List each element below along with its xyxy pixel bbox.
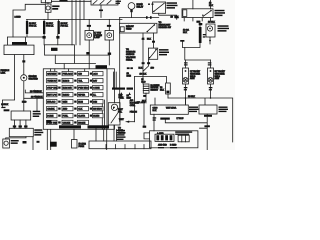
blower resistor striped	[143, 84, 149, 93]
svg-text:HEADLIGHT: HEADLIGHT	[159, 24, 172, 27]
svg-text:FUSE: FUSE	[79, 146, 85, 148]
fusible link 2	[43, 20, 46, 45]
svg-text:PPL 65: PPL 65	[137, 102, 145, 104]
wire	[13, 1, 91, 37]
label	[34, 129, 43, 135]
fuse grid	[47, 72, 110, 129]
ignition coil component	[45, 4, 51, 20]
grommet labels	[160, 118, 170, 120]
svg-text:BLK: BLK	[147, 39, 152, 41]
instrument panel wires	[114, 72, 117, 88]
label1	[189, 107, 199, 113]
wire y98	[168, 98, 233, 142]
svg-text:BLK: BLK	[209, 5, 214, 7]
wire with connector	[120, 17, 159, 19]
svg-text:CLSTR: CLSTR	[118, 133, 125, 135]
svg-text:4WD: 4WD	[63, 109, 68, 111]
svg-text:GAUGES: GAUGES	[47, 73, 57, 76]
wires to lower area	[72, 0, 84, 45]
label	[116, 1, 122, 4]
fuse block label	[96, 65, 108, 68]
wire	[6, 137, 33, 150]
svg-text:PANEL: PANEL	[126, 58, 134, 61]
label	[159, 49, 169, 55]
wire	[100, 5, 102, 18]
label2	[219, 107, 229, 113]
svg-text:CRANK: CRANK	[47, 108, 55, 111]
left wire down	[1, 107, 9, 112]
generator box	[4, 45, 34, 55]
wires into long box	[96, 129, 107, 151]
svg-text:ECM IGN: ECM IGN	[63, 88, 72, 90]
instrument text label	[117, 130, 126, 140]
svg-text:WHT: WHT	[119, 119, 124, 121]
park brake switch P	[108, 103, 120, 125]
bottom long connector box	[89, 141, 151, 149]
svg-text:DIM: DIM	[93, 102, 97, 104]
wire	[159, 13, 177, 19]
svg-text:HTR A/C: HTR A/C	[47, 101, 56, 104]
arrow line A	[126, 121, 135, 123]
inline fuse small comp	[72, 140, 78, 149]
label	[215, 10, 226, 16]
cell group 1	[155, 134, 174, 141]
svg-text:BLO: BLO	[141, 81, 146, 83]
connector marks	[148, 4, 154, 5]
svg-text:RELAY: RELAY	[137, 6, 144, 9]
wires into bus boxes	[154, 98, 186, 131]
svg-text:2 RED: 2 RED	[15, 17, 22, 19]
svg-text:18 BLK: 18 BLK	[140, 74, 147, 76]
wires above	[193, 0, 211, 9]
svg-text:FUS LK: FUS LK	[29, 26, 37, 28]
svg-text:INST LPS: INST LPS	[47, 95, 57, 97]
bus box 1	[150, 105, 188, 114]
svg-text:STOP HAZ: STOP HAZ	[47, 87, 58, 90]
svg-text:BRN: BRN	[127, 76, 132, 78]
wire	[74, 54, 109, 56]
horn LT park/turn lamp	[85, 20, 94, 69]
junction below relay	[143, 59, 148, 71]
fuse block box	[43, 69, 114, 130]
svg-text:B RED: B RED	[170, 144, 177, 146]
svg-text:FUS LK: FUS LK	[61, 26, 69, 28]
LT side marker bulb	[183, 68, 189, 84]
svg-text:ACC: ACC	[93, 73, 98, 76]
svg-text:WIPER: WIPER	[78, 95, 85, 97]
ignition switch feed box	[120, 23, 158, 33]
ground circle	[21, 55, 27, 111]
svg-text:FUEL: FUEL	[63, 116, 69, 118]
svg-text:14 BLK: 14 BLK	[1, 104, 8, 106]
blower motor	[206, 24, 215, 44]
wire	[73, 130, 75, 140]
thick wire bar	[180, 21, 206, 48]
svg-text:BLK: BLK	[183, 32, 188, 34]
svg-text:C HSE: C HSE	[93, 88, 100, 90]
svg-text:RESIST: RESIST	[151, 90, 159, 92]
svg-text:ECM: ECM	[78, 102, 83, 104]
wires	[14, 120, 26, 128]
svg-text:BLK: BLK	[153, 110, 158, 112]
fusible link 3	[56, 20, 60, 45]
label	[33, 111, 41, 117]
fusible link 1	[7, 20, 43, 46]
svg-text:BRAKE: BRAKE	[78, 122, 86, 125]
svg-text:DOME: DOME	[47, 116, 54, 118]
wires below bulbs	[186, 84, 211, 104]
svg-text:PNK 65: PNK 65	[130, 112, 138, 114]
RT side marker bulb	[208, 68, 214, 84]
label	[59, 0, 67, 2]
svg-text:BLK: BLK	[160, 89, 165, 91]
svg-text:RR WDO: RR WDO	[93, 109, 102, 111]
cell group 2	[178, 135, 189, 142]
junction block box	[45, 45, 75, 55]
svg-text:CLSTR: CLSTR	[78, 116, 85, 118]
ground component small	[3, 139, 10, 148]
wire	[119, 18, 121, 122]
wire fusible left	[2, 55, 14, 107]
label	[52, 5, 59, 9]
wire below resistor	[144, 93, 146, 126]
svg-text:4WD IND: 4WD IND	[158, 144, 167, 146]
horn RT park/turn lamp	[105, 20, 114, 66]
svg-text:BLK: BLK	[119, 97, 124, 99]
svg-text:CTRL: CTRL	[130, 105, 136, 107]
wires below fuse block	[47, 130, 50, 151]
svg-text:CIG: CIG	[78, 74, 82, 76]
svg-text:FUS LK: FUS LK	[46, 26, 54, 28]
svg-text:PWR ACC: PWR ACC	[63, 73, 73, 76]
headlight switch box	[182, 9, 213, 18]
main bus wire	[27, 19, 123, 21]
svg-text:LT BLU: LT BLU	[177, 118, 184, 120]
svg-text:ASM: ASM	[215, 77, 220, 80]
svg-text:18 BLK: 18 BLK	[188, 96, 195, 98]
connector ticks	[184, 62, 211, 65]
svg-text:TURN BU: TURN BU	[47, 81, 57, 83]
wires from P box	[114, 125, 117, 141]
A/C wires from top	[143, 33, 154, 84]
wire frame	[135, 76, 167, 121]
svg-text:PWR WDO: PWR WDO	[78, 88, 89, 90]
wire label blob	[204, 125, 210, 127]
horn relay circle	[128, 3, 135, 18]
label strips	[175, 131, 192, 135]
svg-text:DIMMER SW: DIMMER SW	[159, 27, 171, 29]
svg-text:ECM B: ECM B	[63, 81, 70, 83]
ignition switch dashed box	[91, 0, 118, 5]
svg-text:WHT 150A: WHT 150A	[166, 107, 177, 110]
wires below headlight switch	[184, 18, 210, 21]
clutch start switch box	[11, 111, 31, 120]
wire from junction to fuse block	[55, 55, 95, 69]
svg-text:VIA FUSE: VIA FUSE	[126, 56, 136, 59]
svg-text:RADIO: RADIO	[63, 94, 70, 97]
svg-text:BLK: BLK	[139, 68, 144, 70]
wires left of fuse block	[24, 90, 44, 98]
label	[218, 25, 230, 31]
heater connector	[166, 83, 171, 94]
TCC solenoid box	[9, 128, 33, 136]
svg-text:CLK: CLK	[78, 109, 83, 111]
svg-text:20 PNK/BLK: 20 PNK/BLK	[30, 91, 42, 93]
bus box 2	[199, 105, 217, 114]
svg-text:CHOKE: CHOKE	[63, 123, 71, 125]
svg-text:LAMP: LAMP	[94, 36, 100, 39]
bottom right connector box	[144, 131, 198, 148]
svg-text:GEN: GEN	[63, 102, 68, 104]
svg-text:GROUND: GROUND	[29, 78, 39, 80]
A/C relay box	[148, 48, 157, 59]
generator label	[12, 42, 27, 45]
svg-text:HORN: HORN	[93, 116, 100, 118]
svg-text:ASM: ASM	[190, 77, 195, 80]
wires below bus boxes	[165, 114, 207, 150]
svg-text:RED: RED	[22, 102, 27, 104]
marker bus	[185, 48, 211, 61]
svg-text:LINK: LINK	[1, 72, 6, 74]
battery junction box top-left	[41, 0, 51, 3]
arrows	[121, 92, 131, 95]
label	[167, 2, 178, 8]
svg-text:FEED: FEED	[126, 29, 132, 31]
svg-text:18 BLK: 18 BLK	[208, 22, 215, 24]
dimmer switch box	[153, 2, 166, 13]
